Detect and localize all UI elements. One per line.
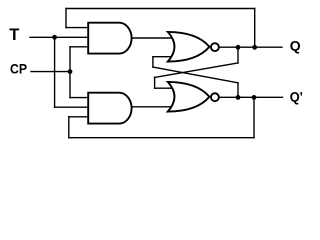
- wire T vertical branch: [54, 37, 56, 107]
- node Q' cross junction: [236, 95, 241, 100]
- node Q cross junction: [236, 45, 241, 50]
- wire Q output lead: [216, 46, 282, 48]
- svg-text:Q': Q': [290, 88, 303, 104]
- wire feedback left vertical to AND U1: [65, 9, 67, 28]
- wire feedback left vertical to AND U2: [68, 117, 70, 138]
- NOR gate U3 output bubble: [211, 43, 219, 51]
- wire T to AND U2 middle input: [55, 106, 90, 108]
- wire bottom feedback rail: [69, 137, 254, 139]
- svg-text:Q: Q: [290, 37, 301, 53]
- node CP junction: [68, 69, 73, 74]
- wire CP to AND U2 top input: [70, 97, 90, 99]
- wire feedback to AND U1 top input: [66, 27, 90, 29]
- wire top rail right vertical to node Q: [254, 9, 256, 48]
- wire cross-couple Q' hook vertical: [152, 57, 154, 67]
- NOR gate U4 output bubble: [211, 93, 219, 101]
- wire cross-couple Q diagonal: [155, 63, 238, 78]
- wire cross-couple Q hook vertical: [154, 77, 156, 88]
- svg-text:T: T: [9, 26, 19, 44]
- wire cross-couple Q' diagonal: [153, 67, 238, 83]
- wire CP to AND U1 bottom input: [70, 46, 90, 48]
- wire CP vertical branch: [69, 47, 71, 98]
- wire AND U2 output to NOR U4 bottom input: [131, 106, 174, 108]
- wire bottom rail right vertical to node Q': [253, 97, 255, 137]
- wire AND U1 output to NOR U3 top input: [131, 37, 174, 39]
- NOR gate U3: [168, 32, 210, 62]
- wire cross-couple Q' to NOR U3 bottom input: [153, 56, 174, 58]
- wire CP input lead: [31, 71, 70, 73]
- AND gate U1: [88, 23, 131, 54]
- wire feedback to AND U2 bottom input: [69, 116, 90, 118]
- wire cross-couple Q' up segment: [237, 83, 239, 98]
- AND gate U2: [88, 93, 131, 124]
- NOR gate U4: [168, 82, 210, 112]
- svg-text:CP: CP: [10, 61, 27, 77]
- wire top feedback rail: [66, 8, 255, 10]
- wire T input lead: [30, 36, 90, 38]
- wire cross-couple Q down segment: [237, 47, 239, 63]
- node Q' rail junction: [252, 95, 257, 100]
- node T junction: [52, 35, 57, 40]
- wire cross-couple Q to NOR U4 top input: [155, 87, 174, 89]
- node Q rail junction: [252, 45, 257, 50]
- wire Q' output lead: [216, 96, 283, 98]
